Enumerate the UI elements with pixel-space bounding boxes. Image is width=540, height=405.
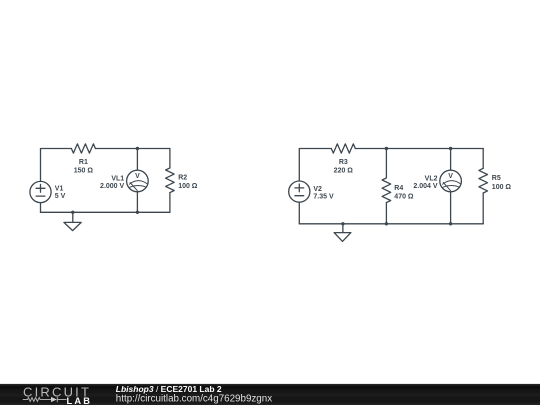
logo squiggle wire <box>23 397 67 402</box>
svg-text:2.000 V: 2.000 V <box>100 183 124 190</box>
node dot R4 top <box>385 147 388 150</box>
wire R4 branch top <box>385 149 387 178</box>
svg-text:100 Ω: 100 Ω <box>178 183 198 190</box>
svg-text:V: V <box>135 173 140 180</box>
wire bottom rail left circuit <box>41 211 170 213</box>
svg-text:V2: V2 <box>313 186 322 193</box>
wire R2 bottom <box>169 193 171 213</box>
ground (left circuit) <box>72 212 74 222</box>
node dot R4 bottom <box>385 222 388 225</box>
svg-text:220 Ω: 220 Ω <box>334 167 354 174</box>
svg-text:5 V: 5 V <box>55 193 66 200</box>
node dot ground right <box>341 222 344 225</box>
node dot VL2 top <box>449 147 452 150</box>
wire R3 to right edge <box>355 148 483 150</box>
svg-text:R4: R4 <box>394 185 403 192</box>
svg-text:7.35 V: 7.35 V <box>313 194 334 201</box>
wire R2 branch down from top <box>169 149 171 168</box>
resistor R2 <box>166 168 175 193</box>
voltage source V1 <box>30 181 51 202</box>
ground (right circuit) <box>342 224 344 233</box>
svg-text:R2: R2 <box>178 174 187 181</box>
wire R1 to R2 branch top <box>95 148 169 150</box>
wire R4 bottom <box>385 203 387 224</box>
svg-text:V: V <box>448 173 453 180</box>
wire voltmeter VL2 top <box>450 149 452 171</box>
svg-text:R1: R1 <box>79 159 88 166</box>
svg-text:VL1: VL1 <box>111 175 124 182</box>
resistor R5 <box>479 168 488 193</box>
svg-text:LAB: LAB <box>67 396 93 405</box>
wire voltmeter VL1 top <box>136 149 138 171</box>
svg-text:470 Ω: 470 Ω <box>394 194 414 201</box>
voltmeter VL2 <box>440 170 462 192</box>
svg-text:100 Ω: 100 Ω <box>492 184 512 191</box>
wire R5 bottom <box>482 193 484 224</box>
svg-text:V1: V1 <box>55 185 64 192</box>
node dot VL1 bottom <box>136 211 139 214</box>
wire R5 branch top <box>482 149 484 169</box>
svg-text:R3: R3 <box>339 159 348 166</box>
wire V1 bottom <box>40 203 42 213</box>
resistor R3 <box>331 144 355 153</box>
svg-text:http://circuitlab.com/c4g7629b: http://circuitlab.com/c4g7629b9zgnx <box>116 393 272 404</box>
node dot VL2 bottom <box>449 222 452 225</box>
voltmeter VL1 <box>127 170 149 192</box>
svg-text:150 Ω: 150 Ω <box>74 167 94 174</box>
svg-text:R5: R5 <box>492 175 501 182</box>
node dot ground left <box>71 211 74 214</box>
resistor R4 <box>382 178 391 203</box>
svg-text:VL2: VL2 <box>425 175 438 182</box>
voltage source V2 <box>289 181 310 202</box>
wire left circuit: V1 top to R1 <box>41 149 72 182</box>
wire voltmeter VL2 bottom <box>450 192 452 224</box>
node dot VL1 top <box>136 147 139 150</box>
wire V2 bottom <box>298 202 300 224</box>
wire bottom rail right circuit <box>299 223 483 225</box>
wire voltmeter VL1 bottom <box>136 192 138 213</box>
wire right circuit: V2 top to R3 <box>299 149 331 182</box>
svg-text:2.004 V: 2.004 V <box>413 183 437 190</box>
resistor R1 <box>71 144 95 153</box>
logo diode <box>51 397 57 402</box>
